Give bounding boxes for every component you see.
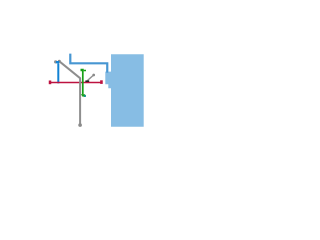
node N1 (left rail dot)	[49, 81, 52, 85]
link L2 (gray branch)	[87, 75, 94, 81]
vector V1 (green arrow)	[81, 69, 87, 97]
joint marker J1 (black tick)	[85, 81, 89, 82]
pin P1 (gray pivot blob)	[54, 60, 57, 63]
pin P4 (crank start knob)	[58, 60, 61, 63]
pin P3 (branch knob)	[92, 74, 95, 77]
anchor T1 (blue tee)	[56, 61, 60, 83]
pin P2 (bottom knob)	[78, 123, 82, 127]
rail R1 (red axis)	[50, 82, 101, 84]
link L1 (gray crank and rod)	[60, 62, 80, 124]
slider block B1	[105, 54, 143, 127]
node N2 (right rail dot)	[100, 80, 103, 84]
wire W1 (blue elbow)	[70, 54, 107, 73]
